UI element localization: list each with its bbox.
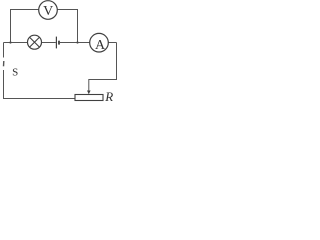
- svg-text:A: A: [95, 38, 106, 53]
- svg-text:V: V: [43, 4, 53, 19]
- svg-text:S: S: [12, 66, 18, 78]
- svg-text:R: R: [104, 89, 113, 104]
